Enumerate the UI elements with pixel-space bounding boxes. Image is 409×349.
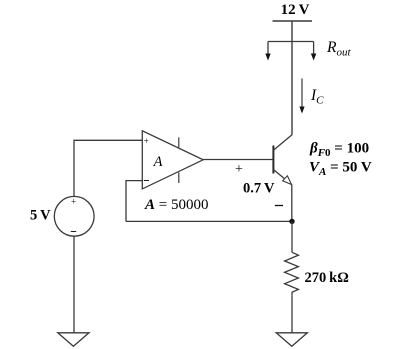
svg-text:12 V: 12 V bbox=[281, 2, 310, 18]
label + (v_BE) bbox=[235, 162, 243, 177]
label 270 kOhm bbox=[305, 270, 349, 286]
wire noninverting input bbox=[74, 140, 142, 196]
label V_A = 50 V bbox=[309, 160, 372, 179]
Rout probe arrows bbox=[265, 42, 316, 61]
wire collector from rail bbox=[291, 21, 293, 135]
wire inverting input bbox=[126, 181, 142, 222]
wire feedback bottom bbox=[126, 220, 292, 222]
label beta_F0 = 100 bbox=[309, 141, 369, 160]
wire op-amp output to base bbox=[203, 159, 272, 161]
ground right bbox=[276, 333, 307, 347]
svg-text:270 kΩ: 270 kΩ bbox=[305, 270, 349, 286]
svg-text:A: A bbox=[153, 154, 163, 170]
svg-text:VA = 50 V: VA = 50 V bbox=[309, 160, 372, 179]
label minus (v_BE) bbox=[275, 205, 283, 207]
ground left bbox=[58, 333, 89, 347]
label I_C bbox=[310, 87, 324, 107]
svg-text:+: + bbox=[235, 162, 243, 177]
label A = 50000 bbox=[144, 197, 208, 213]
svg-text:A = 50000: A = 50000 bbox=[144, 197, 208, 213]
label 12 V supply bbox=[281, 2, 310, 18]
wire node to resistor bbox=[291, 221, 293, 252]
node emitter junction bbox=[289, 219, 294, 224]
svg-text:+: + bbox=[144, 136, 149, 146]
svg-text:+: + bbox=[71, 197, 76, 207]
svg-text:5 V: 5 V bbox=[30, 208, 51, 224]
wire resistor to ground bbox=[291, 295, 293, 333]
wire source to ground bbox=[73, 236, 75, 332]
svg-text:βF0 = 100: βF0 = 100 bbox=[309, 141, 369, 160]
label R_out bbox=[326, 39, 351, 59]
resistor R1 270k bbox=[285, 252, 299, 295]
op-amp U1 bbox=[142, 131, 203, 189]
voltage source V1 5V bbox=[54, 196, 94, 236]
label 0.7 V bbox=[243, 181, 275, 197]
supply rail bar bbox=[273, 20, 313, 22]
current arrow I_C bbox=[299, 79, 304, 114]
transistor Q1 bbox=[273, 135, 292, 185]
wire emitter down bbox=[291, 185, 293, 222]
svg-text:Rout: Rout bbox=[326, 39, 351, 59]
svg-text:0.7 V: 0.7 V bbox=[243, 181, 275, 197]
svg-text:IC: IC bbox=[310, 87, 324, 107]
label 5 V bbox=[30, 208, 51, 224]
